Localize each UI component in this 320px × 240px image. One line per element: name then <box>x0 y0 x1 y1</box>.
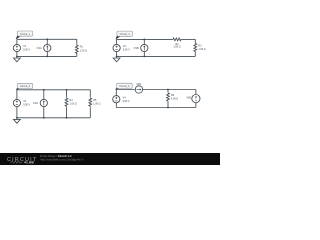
label R5 value <box>93 99 100 106</box>
node junction R6 bottom <box>167 107 169 109</box>
node junction C2 top <box>143 39 145 41</box>
current source CSB <box>141 44 148 51</box>
wire R3 stems <box>194 39 196 56</box>
label V3 value <box>23 100 30 107</box>
label R4 value <box>70 99 77 106</box>
svg-text:✦LAB: ✦LAB <box>24 161 35 165</box>
svg-text:1.00 Ω: 1.00 Ω <box>93 103 100 106</box>
node junction C3 bottom <box>43 117 45 119</box>
ground C1 <box>14 56 21 61</box>
wire top C2 left <box>117 38 173 40</box>
svg-text:2.00 Ω: 2.00 Ω <box>173 46 180 49</box>
svg-text:5.00 V: 5.00 V <box>123 100 130 103</box>
node label tag Circuit_3 <box>16 83 33 90</box>
resistor R1 <box>75 44 78 54</box>
wire CS1 stems <box>46 39 48 56</box>
wire top C4 right <box>143 89 196 91</box>
svg-text:VM1: VM1 <box>186 96 192 99</box>
svg-text:Circuit_3: Circuit_3 <box>20 84 31 88</box>
node junction R6 top <box>167 89 169 91</box>
wire V2 stems <box>116 39 118 56</box>
wire bottom C1 <box>17 55 77 57</box>
ground C2 <box>113 56 120 61</box>
wire R6 stems <box>167 90 169 108</box>
wire R1 stems <box>76 39 78 56</box>
CircuitLab logo wordmark <box>7 157 37 165</box>
current source CSA <box>44 44 51 51</box>
resistor R5 <box>89 97 92 107</box>
node junction C1 ground <box>16 56 18 58</box>
node label tag Circuit_1 <box>16 31 33 39</box>
resistor R3 <box>194 43 197 53</box>
wire CS2 stems <box>143 39 145 56</box>
wire bottom C2 <box>117 55 196 57</box>
resistor R2 <box>172 38 182 41</box>
svg-text:1.00 Ω: 1.00 Ω <box>80 49 87 52</box>
voltage source V3 <box>13 99 20 106</box>
svg-text:4.00 Ω: 4.00 Ω <box>171 98 178 101</box>
node junction C3 top <box>43 89 45 91</box>
svg-text:1.00 Ω: 1.00 Ω <box>198 48 205 51</box>
node label tag Circuit_2 <box>115 31 132 39</box>
voltage source V4 <box>113 96 120 103</box>
wire R4 stems <box>66 90 68 118</box>
svg-text:CSC: CSC <box>33 102 38 105</box>
node junction R4 top <box>66 89 68 91</box>
label V2 value <box>123 45 130 52</box>
node junction C3 ground <box>16 117 18 119</box>
wire top C1 <box>17 38 77 40</box>
svg-text:5.00 V: 5.00 V <box>23 104 30 107</box>
label R1 value <box>80 46 87 53</box>
node junction C2 bottom <box>143 56 145 58</box>
svg-text:Circuit_1: Circuit_1 <box>20 32 31 36</box>
label V4 value <box>123 96 130 103</box>
voltage source V2 <box>113 44 120 51</box>
svg-text:2.00 Ω: 2.00 Ω <box>70 103 77 106</box>
wire CS3 stems <box>43 90 45 118</box>
svg-text:AM1: AM1 <box>136 83 142 86</box>
wire bottom C4 <box>116 107 196 109</box>
wire top C2 right <box>182 38 196 40</box>
voltage source V1 <box>13 44 20 51</box>
svg-text:Circuit_2: Circuit_2 <box>120 32 131 36</box>
svg-text:5.00 V: 5.00 V <box>123 49 130 52</box>
wire top C3 <box>17 89 90 91</box>
label R2 value <box>173 43 180 49</box>
current source CSC <box>40 99 47 106</box>
resistor R4 <box>65 97 68 107</box>
svg-text:CSB: CSB <box>134 47 139 50</box>
wire R5 stems <box>89 90 91 118</box>
wire VM1 stems <box>195 90 197 108</box>
wire V1 stems <box>16 39 18 56</box>
voltmeter VM1 <box>192 95 200 103</box>
wire bottom C3 <box>17 117 90 119</box>
svg-text:5.00 V: 5.00 V <box>23 49 30 52</box>
ground C3 <box>14 118 21 123</box>
ammeter AM1 <box>135 86 142 93</box>
node junction R4 bottom <box>66 117 68 119</box>
label V1 value <box>23 45 30 52</box>
wire top C4 left <box>116 89 135 91</box>
node label tag Circuit_4 <box>115 83 132 90</box>
node junction C1 bottom <box>46 56 48 58</box>
node junction C1 top <box>46 38 48 40</box>
label R3 value <box>198 44 205 51</box>
wire V4 stems <box>115 90 117 108</box>
label R6 value <box>171 94 178 101</box>
resistor R6 <box>167 92 170 102</box>
svg-text:http://circuitlab.com/c/2w3djp: http://circuitlab.com/c/2w3djpz4z7v <box>40 157 84 161</box>
wire V3 stems <box>16 90 18 118</box>
svg-text:CSA: CSA <box>37 47 42 50</box>
node junction C2 ground <box>116 56 118 58</box>
svg-text:Circuit_4: Circuit_4 <box>119 84 130 88</box>
